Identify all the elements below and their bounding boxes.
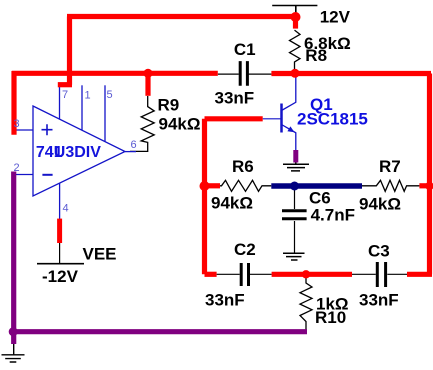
ground (Q1 emitter) xyxy=(283,162,309,171)
wire R7 right stub xyxy=(419,183,430,188)
svg-text:1: 1 xyxy=(85,90,91,102)
wire C3 to right rail xyxy=(407,272,432,277)
wire feedback rail xyxy=(12,71,218,135)
svg-text:4.7nF: 4.7nF xyxy=(311,206,355,225)
wire bottom to C2 xyxy=(205,272,217,277)
wire pin 4 red segment xyxy=(57,219,62,243)
wire navy C6 rail xyxy=(271,183,362,189)
svg-text:R7: R7 xyxy=(379,157,401,176)
node purple junction xyxy=(9,327,18,336)
svg-text:C2: C2 xyxy=(234,240,256,259)
resistor R8 xyxy=(290,30,301,70)
wire C2 to C3 xyxy=(272,272,352,277)
node C1/R8 junction xyxy=(291,69,300,78)
svg-text:12V: 12V xyxy=(320,7,351,26)
svg-text:R9: R9 xyxy=(158,96,180,115)
svg-text:U3DIV: U3DIV xyxy=(54,144,101,161)
resistor R10 xyxy=(300,278,312,331)
svg-text:94kΩ: 94kΩ xyxy=(159,115,201,134)
capacitor C3 xyxy=(352,262,407,287)
svg-text:4: 4 xyxy=(63,203,69,215)
ground (under C6) xyxy=(283,253,305,260)
wire C1 to right rail xyxy=(271,71,431,76)
power symbol VEE xyxy=(37,242,84,264)
resistor R9 xyxy=(130,96,154,151)
op-amp U3 xyxy=(14,85,136,219)
wire 12V top rail xyxy=(67,14,296,19)
svg-text:VEE: VEE xyxy=(83,245,117,264)
svg-text:5: 5 xyxy=(107,89,113,101)
svg-text:6: 6 xyxy=(131,139,137,151)
capacitor C2 xyxy=(217,263,272,286)
svg-text:3: 3 xyxy=(14,118,20,130)
wire R6 left stub xyxy=(205,183,221,188)
capacitor C6 xyxy=(282,188,307,253)
wire base rail left xyxy=(205,116,263,121)
node navy C6 junction xyxy=(290,182,299,191)
wire V+ drop to pin 7 xyxy=(58,17,72,85)
wire R9 top stub xyxy=(145,73,150,96)
svg-text:33nF: 33nF xyxy=(205,291,245,310)
svg-text:33nF: 33nF xyxy=(359,291,399,310)
resistor R6 xyxy=(220,180,271,191)
svg-text:7: 7 xyxy=(62,89,68,101)
svg-text:C1: C1 xyxy=(234,40,256,59)
power symbol 12V bar xyxy=(272,6,317,16)
node R6 junction xyxy=(200,181,210,191)
svg-text:2SC1815: 2SC1815 xyxy=(297,110,368,129)
ground (bottom left) xyxy=(2,343,25,362)
svg-text:94kΩ: 94kΩ xyxy=(359,195,401,214)
svg-text:C3: C3 xyxy=(368,242,390,261)
wire purple bottom horizontal xyxy=(14,329,307,334)
wire right vertical rail xyxy=(427,74,432,275)
node R10 junction xyxy=(302,270,310,278)
wire left middle vertical xyxy=(202,119,207,274)
wire emitter purple segment xyxy=(293,150,298,163)
wire pin 2 purple vertical xyxy=(11,172,16,345)
capacitor C1 xyxy=(218,61,272,86)
svg-text:94kΩ: 94kΩ xyxy=(211,194,253,213)
transistor Q1 xyxy=(263,74,296,151)
svg-text:R10: R10 xyxy=(315,308,346,327)
svg-text:R6: R6 xyxy=(232,157,254,176)
wire 12V to R8 stub xyxy=(293,17,298,29)
node 12V junction xyxy=(291,12,301,22)
svg-text:33nF: 33nF xyxy=(215,88,255,107)
resistor R7 xyxy=(362,180,419,191)
svg-text:2: 2 xyxy=(14,162,20,174)
node R9 top junction xyxy=(144,69,153,78)
node R7 junction xyxy=(425,182,433,190)
svg-text:-12V: -12V xyxy=(42,267,79,286)
svg-text:R8: R8 xyxy=(305,46,327,65)
